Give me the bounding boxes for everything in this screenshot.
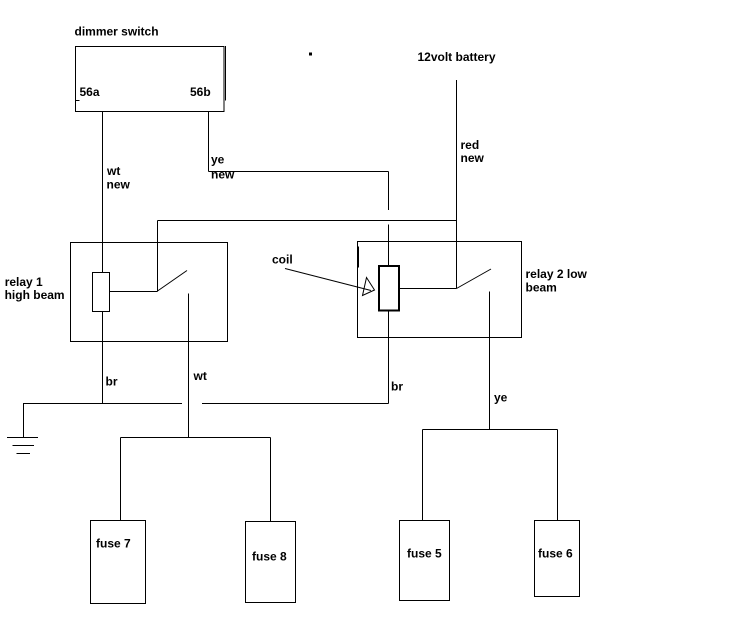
svg-text:dimmer switch: dimmer switch xyxy=(75,24,159,38)
svg-text:wt: wt xyxy=(106,164,120,178)
svg-text:fuse 8: fuse 8 xyxy=(252,549,287,563)
svg-text:fuse 5: fuse 5 xyxy=(407,546,442,560)
svg-text:12volt battery: 12volt battery xyxy=(418,50,496,64)
svg-text:ye: ye xyxy=(494,391,508,405)
svg-text:new: new xyxy=(211,168,235,182)
svg-text:relay 2 low: relay 2 low xyxy=(526,267,588,281)
svg-text:br: br xyxy=(391,379,403,393)
svg-text:new: new xyxy=(461,151,485,165)
svg-text:56b: 56b xyxy=(190,85,211,99)
svg-text:ye: ye xyxy=(211,152,225,166)
svg-text:fuse 6: fuse 6 xyxy=(538,546,573,560)
svg-text:fuse 7: fuse 7 xyxy=(96,537,131,551)
svg-text:56a: 56a xyxy=(80,85,100,99)
svg-text:coil: coil xyxy=(272,252,293,266)
svg-text:red: red xyxy=(461,138,480,152)
svg-text:new: new xyxy=(107,178,131,192)
svg-text:beam: beam xyxy=(526,281,557,295)
svg-text:br: br xyxy=(106,374,118,388)
svg-text:wt: wt xyxy=(193,369,207,383)
svg-text:high beam: high beam xyxy=(5,288,65,302)
